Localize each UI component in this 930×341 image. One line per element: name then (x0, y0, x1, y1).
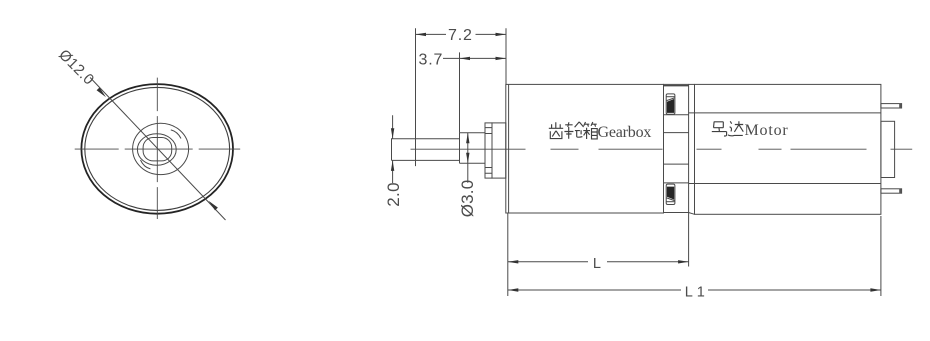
motor body (695, 84, 881, 214)
dim L1 arrow right (870, 288, 881, 291)
dim 2.0 line (392, 115, 394, 183)
bottom screw outline (666, 184, 675, 204)
dim L extension left (507, 213, 509, 296)
dim Ø3.0 arrow top (466, 133, 469, 144)
bottom screw body fill (667, 187, 674, 200)
dimension Ø12.0 arrow upper (97, 88, 106, 98)
svg-text:2.0: 2.0 (384, 182, 403, 207)
bottom screw diagonal (667, 198, 675, 201)
label gearbox chinese 齿 (549, 122, 563, 138)
dim Ø3.0 line (467, 133, 469, 183)
top screw body fill (667, 99, 674, 113)
dim Ø3.0 arrow bottom (466, 153, 469, 164)
dim L1 extension right (880, 216, 882, 296)
dim 7.2 extension left (415, 28, 417, 166)
bearing hub column (485, 123, 492, 178)
dimension Ø12.0 diagonal line (90, 78, 225, 221)
gearbox body (506, 84, 664, 213)
junction column (664, 84, 689, 212)
label motor chinese 达 (728, 121, 743, 136)
dim 3.7 arrow left (460, 57, 471, 60)
dim 7.2 arrow left (416, 33, 427, 36)
junction column horizontal lines (664, 115, 689, 183)
motor inner line bottom (689, 183, 881, 185)
side view shaft 2.0 (392, 139, 460, 161)
top screw slot line (666, 96, 674, 98)
dim 3.7 arrow right (496, 57, 507, 60)
label gearbox chinese 轮 (564, 122, 583, 139)
label motor chinese 马 (712, 122, 727, 136)
svg-text:L 1: L 1 (685, 285, 705, 301)
dim L extension right (688, 213, 690, 267)
front view vertical centerline (156, 78, 158, 219)
boss notch bottom-left (141, 160, 151, 169)
front view boss circle (133, 123, 189, 174)
motor inner line top (689, 112, 881, 114)
svg-text:Ø3.0: Ø3.0 (458, 180, 477, 218)
top screw outline (666, 94, 675, 114)
front view outer circle (81, 84, 233, 214)
dim L arrow right (678, 260, 689, 263)
junction column top band (664, 85, 689, 87)
bottom screw slot line (666, 201, 674, 203)
label gearbox chinese 箱 (583, 122, 597, 139)
front view shaft cross-section (143, 138, 172, 161)
dim 7.2 extension right (505, 28, 507, 84)
gearbox front face inner line (508, 84, 510, 213)
motor terminal bottom (881, 189, 902, 193)
dim L1 line (508, 289, 881, 291)
bearing hub bands (485, 128, 492, 174)
front view horizontal centerline (75, 148, 241, 150)
svg-text:Ø12.0: Ø12.0 (55, 46, 97, 88)
side view centerline (411, 148, 913, 150)
front view second circle (85, 87, 230, 210)
dim 2.0 arrow top (391, 128, 394, 139)
dim L arrow left (508, 260, 519, 263)
boss notch top-right (171, 130, 181, 139)
side view shaft 3.0 section (460, 133, 486, 163)
top screw diagonal (667, 98, 675, 101)
bearing hub plate (492, 123, 506, 178)
svg-text:7.2: 7.2 (448, 27, 473, 44)
front view inner circle (137, 134, 176, 166)
dim 7.2 line (416, 33, 507, 35)
svg-text:3.7: 3.7 (419, 51, 444, 68)
dim L line (508, 261, 689, 263)
svg-text:L: L (593, 256, 601, 272)
svg-text:Gearbox: Gearbox (598, 124, 652, 141)
motor top connector (689, 83, 695, 85)
dimension Ø12.0 arrow lower (209, 201, 218, 211)
dim 3.7 extension left (459, 52, 461, 132)
motor terminal top (881, 104, 902, 108)
dim L1 arrow left (508, 288, 519, 291)
dim 7.2 arrow right (496, 33, 507, 36)
motor bottom connector (689, 213, 695, 215)
motor end cap (881, 121, 895, 177)
dim 2.0 arrow bottom (391, 160, 394, 171)
svg-text:Motor: Motor (745, 122, 789, 139)
dim 3.7 line (443, 57, 506, 59)
